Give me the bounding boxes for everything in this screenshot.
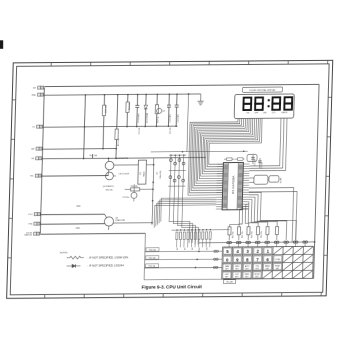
svg-text:Figure 9-3. CPU Unit Circuit: Figure 9-3. CPU Unit Circuit [142, 284, 203, 289]
wire bus LCD pin 11 to IC1 [204, 118, 257, 171]
LCD module DS1 [234, 94, 294, 119]
label R51 10k [146, 256, 159, 260]
notes heading [60, 252, 68, 254]
wire bus LCD pin 8 to IC1 [199, 118, 251, 178]
capacitor C9 100u/16V [156, 170, 162, 179]
wire bus IC1 port row 1 [161, 198, 216, 222]
label R43 value [261, 231, 263, 238]
ground symbol GND1 [197, 94, 204, 105]
svg-text:100u/16V: 100u/16V [160, 170, 162, 179]
svg-text:GND: GND [76, 228, 81, 230]
scanner edge mark [0, 40, 3, 49]
svg-text:OSC LMT: OSC LMT [226, 282, 233, 284]
svg-text:10k: 10k [199, 247, 201, 250]
keypad matrix grid [222, 246, 314, 279]
wire bus LCD pin 7 to IC1 [198, 118, 250, 180]
connector keypad K4 [255, 241, 260, 247]
keypad key MODE [253, 272, 261, 278]
wire bus IC1 port row 5 [154, 205, 216, 228]
svg-text:R51 10k: R51 10k [149, 257, 156, 259]
svg-text:GND: GND [32, 95, 37, 97]
svg-text:78L05: 78L05 [144, 172, 146, 177]
wire bus keypad column 4 to IC1 [248, 202, 259, 227]
svg-text:R15 10k: R15 10k [118, 139, 120, 146]
LCD annunciator labels [246, 112, 288, 114]
connector pin PTB [28, 222, 39, 225]
svg-text:C12 0.47u: C12 0.47u [170, 114, 172, 123]
wire net VCC top rail [44, 84, 319, 86]
wire keypad row feed 3 [144, 266, 222, 269]
connector pin YO [32, 125, 43, 128]
svg-text:R14 10k: R14 10k [129, 102, 131, 109]
svg-text:YP1: YP1 [30, 176, 34, 178]
wire bus LCD pin 6 to IC1 [196, 118, 247, 183]
svg-text:NOTES: NOTES [60, 252, 68, 254]
wire net VCC right drop [314, 84, 319, 278]
svg-text:X1 4M: X1 4M [280, 177, 282, 183]
resistor R19 IC1 bypass [235, 158, 245, 160]
connector pin DOOR [24, 232, 39, 237]
wire bus keypad column 5 to IC1 [248, 199, 269, 226]
transistor Q5 label [103, 185, 114, 188]
wire bus keypad column 2 to IC1 [239, 207, 248, 227]
svg-text:10k: 10k [207, 247, 209, 250]
wire net WP row [43, 148, 117, 151]
wire bus LCD pin 4 to IC1 [193, 119, 244, 189]
wire bus LCD pin 14 to IC1 [209, 118, 262, 164]
wire bus LCD pin 5 to IC1 [194, 119, 245, 186]
svg-text:Q4 KTA1273B: Q4 KTA1273B [116, 157, 129, 160]
wire bus keypad column 6 to IC1 [248, 197, 278, 227]
keypad key FEED [243, 272, 251, 278]
label R41 value [242, 231, 244, 238]
keypad key 5 [223, 248, 231, 254]
resistor R16 10k [101, 94, 108, 150]
label R42 value [251, 231, 253, 238]
connector pin YP1 [30, 174, 41, 177]
svg-text:Q5 KTA1273: Q5 KTA1273 [103, 185, 114, 188]
capacitor C7 electrolytic [105, 172, 129, 180]
resistor R43 10k keypad pull-up [256, 227, 259, 241]
connector keypad K2 [236, 241, 241, 247]
ceramic resonator X1 4MHz [249, 175, 268, 184]
resistor R15 10k [114, 94, 121, 159]
svg-text:10k: 10k [177, 247, 179, 250]
keypad key PLU [253, 264, 261, 270]
svg-text:R12 10k: R12 10k [131, 186, 138, 188]
capacitor C16 [122, 184, 137, 201]
wire bus IC1 port row 3 [157, 201, 216, 224]
diode array D3-D10 [167, 154, 186, 213]
svg-text:IC1 GA7608A: IC1 GA7608A [231, 176, 236, 195]
wire vertical mid bus [151, 158, 154, 225]
wire IC2 to mid bus [146, 164, 153, 166]
svg-text:SWITCH: SWITCH [24, 235, 32, 237]
svg-text:R43 10k: R43 10k [261, 231, 263, 238]
keypad unused hatched cells [262, 246, 313, 279]
wire net PTB row [41, 223, 105, 226]
transistor Q3 KTA1273 cluster [156, 108, 164, 113]
keypad key PRINT [273, 264, 281, 270]
label R50 10k [146, 248, 159, 252]
connector pin WT [33, 86, 44, 89]
wire net mid rail to IC1 [151, 150, 248, 152]
wire keypad connector rail [199, 241, 315, 244]
connector pin BZ [32, 157, 42, 160]
keypad key ZERO [233, 264, 241, 270]
svg-text:C9 100u: C9 100u [122, 197, 129, 199]
resistor R45 10k keypad pull-up [275, 227, 278, 241]
svg-text:Q3: Q3 [162, 111, 164, 113]
svg-text:C13 10k: C13 10k [170, 127, 172, 134]
resistor R40 10k keypad pull-up [228, 227, 231, 241]
wire bus LCD pin 10 to IC1 [202, 118, 254, 173]
capacitor C10 [135, 94, 141, 128]
keypad key 2 [254, 248, 262, 254]
svg-text:R11 10k: R11 10k [106, 190, 113, 192]
keypad key UNIT [223, 272, 231, 278]
resistor R13 10k [90, 154, 98, 158]
wire bus LCD pin 2 to IC1 [190, 119, 240, 193]
wire bus IC1 to keypad right 1 [247, 188, 293, 243]
svg-text:R50 10k: R50 10k [149, 249, 156, 251]
svg-text:C9: C9 [157, 172, 159, 174]
wire bus LCD pin 1 to IC1 [188, 119, 238, 196]
svg-text:KTA1273B: KTA1273B [115, 219, 125, 222]
wire diode array column 3 down [177, 213, 196, 244]
connector keypad K9 [303, 241, 308, 247]
wire bus keypad column 8 to IC1 [247, 192, 297, 240]
wire diode array column 2 down [173, 213, 193, 243]
resonator load network X1b [269, 176, 283, 184]
wire diode array column 1 down [169, 213, 190, 243]
drawing border frame [7, 60, 333, 298]
svg-text:C15 10k: C15 10k [139, 128, 141, 135]
wire bottom rail bus [144, 232, 315, 280]
wire drop V1 [83, 94, 86, 159]
svg-text:IC2: IC2 [140, 172, 142, 175]
svg-text:R16 10k: R16 10k [105, 105, 107, 112]
voltage regulator IC2 78L05 [138, 160, 147, 184]
svg-text:C13 22p: C13 22p [254, 159, 256, 166]
svg-text:C11 0.47u: C11 0.47u [177, 114, 179, 123]
connector keypad K8 [293, 241, 298, 247]
connector keypad K3 [246, 241, 251, 247]
keypad key 8 [243, 256, 251, 262]
label R11 10k [106, 190, 113, 192]
connector pin WP [31, 147, 42, 150]
svg-text:LIQUID CRYSTAL DISPLAY: LIQUID CRYSTAL DISPLAY [249, 89, 276, 92]
connector keypad K6 [274, 241, 279, 247]
LCD label box [242, 87, 282, 92]
connector pin PYO [28, 213, 40, 216]
capacitor network box C13/C14 [247, 154, 257, 161]
pin stubs IC1 left [216, 164, 223, 209]
wire net YP1 row to Q1 [42, 175, 109, 178]
keypad key 4 [234, 248, 242, 254]
wire keypad row feed 2 [145, 258, 223, 261]
wire net PYO row to Q2 [41, 213, 105, 216]
note diode spec symbol [66, 264, 124, 268]
svg-text:GND: GND [76, 206, 81, 208]
svg-text:10k: 10k [192, 247, 194, 250]
resistor array RA1 keypad pull-downs [171, 229, 230, 248]
svg-text:D2 1SS244: D2 1SS244 [147, 113, 149, 123]
wire bus IC1 port row 2 [159, 200, 216, 224]
transistor Q2 KTA1273B [104, 214, 152, 230]
wire net N2 second rail [44, 93, 201, 96]
svg-text:: IF NOT SPECIFIED, 1SS244: : IF NOT SPECIFIED, 1SS244 [87, 264, 124, 268]
microcontroller IC1 GA7608A [222, 163, 243, 210]
svg-text:R52 10k: R52 10k [149, 266, 156, 268]
svg-text:R41 10k: R41 10k [242, 231, 244, 238]
keypad key 0 [223, 256, 231, 262]
wire bus keypad column 3 to IC1 [245, 204, 249, 227]
pin stubs IC1 right [242, 164, 249, 209]
keypad key 1 [264, 248, 272, 254]
keypad key 9 [233, 256, 241, 262]
svg-text:R17 1k: R17 1k [158, 117, 160, 123]
label OSC LMT [224, 280, 236, 284]
keypad key CLR [233, 272, 241, 278]
resistor R41 10k keypad pull-up [237, 227, 240, 241]
capacitor C13 22p [251, 155, 257, 166]
keypad key AUTO [243, 264, 251, 270]
keypad key MEMO [263, 264, 271, 270]
wire bus IC1 port row 4 [156, 203, 216, 226]
caption Figure 9-3 CPU Unit Circuit [142, 284, 203, 289]
capacitor C12 [166, 93, 172, 127]
capacitor C11 [174, 93, 180, 127]
node GND label B [76, 228, 81, 230]
resistor R44 10k keypad pull-up [266, 227, 269, 241]
keypad key TOTAL [274, 256, 282, 262]
label C15 under YO row [139, 128, 141, 135]
resistor R18 IC1 bypass [224, 158, 235, 160]
wire bus keypad column 1 to IC1 [230, 209, 249, 227]
resistor R42 10k keypad pull-up [247, 227, 250, 241]
keypad key 3 [244, 248, 252, 254]
wire net YO row [43, 126, 177, 127]
resistor R17 [155, 93, 161, 127]
note resistor spec symbol [67, 255, 129, 259]
resistor R14 10k [125, 94, 131, 128]
wire bus LCD pin 13 to IC1 [207, 118, 260, 166]
label R40 value [232, 231, 234, 238]
diode D2 [143, 94, 149, 128]
svg-text:CHECK: CHECK [281, 112, 288, 114]
wire keypad row feed 1 [145, 250, 223, 253]
wire N2 drop to mid rail [187, 94, 189, 152]
keypad key 6 [264, 256, 272, 262]
keypad key 7 [254, 256, 262, 262]
wire net DOOR row [40, 232, 145, 235]
keypad key TARE [223, 264, 231, 270]
resistor R12 10k [125, 185, 154, 191]
svg-text:C14 22p: C14 22p [261, 162, 263, 169]
wire left connector bus [40, 88, 44, 234]
wire diode array column 4 down [181, 213, 199, 244]
label R52 10k [145, 264, 158, 268]
svg-text:: IF NOT SPECIFIED, 1/16W ±5%: : IF NOT SPECIFIED, 1/16W ±5% [88, 255, 129, 259]
label C13 under YO row [170, 127, 172, 134]
connector keypad K7 [284, 241, 289, 247]
connector keypad K1 [227, 241, 232, 247]
svg-text:C10 0.047u: C10 0.047u [138, 113, 140, 123]
wire bus LCD pin 12 to IC1 [206, 118, 259, 169]
svg-text:10k: 10k [184, 247, 186, 250]
wire bus LCD common pin 3 [249, 118, 287, 171]
label RA1 values [177, 247, 209, 250]
svg-text:TOTAL: TOTAL [275, 258, 280, 261]
svg-text:PYO: PYO [28, 214, 33, 216]
svg-text:R13 10k: R13 10k [90, 155, 98, 157]
capacitor C14 22p [258, 158, 264, 169]
svg-text:R40 10k: R40 10k [232, 231, 234, 238]
wire net BZ row [42, 158, 205, 159]
wire bus keypad column 7 to IC1 [247, 194, 287, 240]
transistor Q1 KTA1273B [105, 157, 139, 176]
svg-text:R42 10k: R42 10k [251, 231, 253, 238]
wire bus IC1 to keypad right 2 [247, 192, 297, 243]
connector pin GND [32, 93, 44, 96]
wire bus LCD pin 3 to IC1 [191, 119, 242, 191]
wire bus LCD common pin 1 [249, 118, 281, 166]
wire bus LCD common pin 2 [249, 118, 284, 168]
connector keypad K5 [265, 241, 270, 247]
node GND label A [76, 206, 81, 208]
LCD seven-segment digits 88:88 [243, 97, 292, 110]
svg-text:C8 4.7u/50V: C8 4.7u/50V [119, 173, 130, 175]
wire bus LCD pin 9 to IC1 [201, 118, 253, 176]
